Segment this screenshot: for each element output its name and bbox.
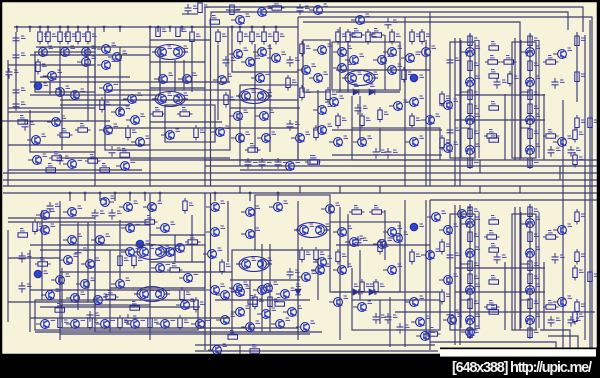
value label bbox=[474, 63, 479, 65]
junction node bbox=[103, 26, 106, 29]
resistor R48 bbox=[369, 33, 385, 37]
wire bbox=[351, 96, 353, 128]
value label bbox=[82, 34, 87, 36]
transistor Q60 bbox=[351, 16, 364, 25]
value label bbox=[158, 201, 163, 203]
value label bbox=[491, 134, 496, 136]
resistor R121 bbox=[489, 106, 499, 110]
value label bbox=[132, 130, 137, 132]
transistor Q51 bbox=[383, 66, 396, 75]
wire loop bbox=[352, 300, 440, 330]
wire bbox=[16, 27, 18, 32]
transistor Q81 bbox=[300, 226, 309, 235]
value label bbox=[244, 110, 249, 112]
resistor R90 bbox=[410, 249, 414, 265]
resistor R29 bbox=[274, 29, 278, 45]
value label bbox=[446, 96, 451, 98]
capacitor C13 bbox=[287, 56, 294, 67]
value label bbox=[332, 92, 337, 94]
value label bbox=[62, 129, 67, 131]
value label bbox=[491, 70, 496, 72]
capacitor C33 bbox=[287, 268, 294, 279]
value label bbox=[358, 72, 363, 74]
wire bbox=[40, 249, 130, 251]
wire bbox=[359, 96, 361, 140]
wire bbox=[191, 215, 193, 262]
wire bbox=[521, 263, 530, 265]
value label bbox=[436, 114, 441, 116]
wire bbox=[425, 200, 427, 340]
resistor R107 bbox=[528, 299, 532, 309]
transistor Q37 bbox=[255, 112, 268, 121]
wire bbox=[277, 193, 279, 201]
wire bbox=[455, 291, 545, 293]
capacitor C46 bbox=[447, 126, 454, 137]
junction node bbox=[84, 192, 87, 195]
resistor R73 bbox=[35, 262, 51, 266]
value label bbox=[489, 301, 494, 303]
wire bbox=[543, 94, 545, 160]
value label bbox=[534, 160, 539, 162]
wire loop bbox=[255, 195, 330, 250]
resistor R35 bbox=[326, 87, 330, 103]
value label bbox=[283, 160, 288, 162]
value label bbox=[310, 224, 315, 226]
capacitor C25 bbox=[568, 146, 575, 157]
wire bbox=[114, 193, 116, 201]
resistor R24 bbox=[216, 29, 220, 45]
value label bbox=[579, 132, 584, 134]
wire bbox=[562, 100, 564, 352]
value label bbox=[348, 226, 353, 228]
junction node bbox=[114, 192, 117, 195]
value label bbox=[393, 315, 398, 317]
bottom watermark bar (right part) bbox=[440, 357, 600, 378]
wire bbox=[174, 235, 176, 262]
value label bbox=[244, 34, 249, 36]
transistor Q105 bbox=[66, 320, 79, 329]
value label bbox=[236, 7, 241, 9]
value label bbox=[253, 160, 258, 162]
wire bbox=[8, 111, 60, 113]
resistor R87 bbox=[178, 315, 182, 331]
wire bbox=[205, 165, 597, 167]
wire bbox=[3, 172, 597, 174]
resistor R53 bbox=[528, 61, 532, 71]
value label bbox=[96, 258, 101, 260]
junction node bbox=[214, 192, 217, 195]
value label bbox=[455, 128, 460, 130]
wire bbox=[540, 330, 570, 350]
value label bbox=[536, 46, 541, 48]
wire bbox=[521, 51, 530, 53]
resistor R61 bbox=[468, 104, 472, 114]
wire loop bbox=[60, 225, 150, 305]
wire bbox=[103, 27, 105, 32]
transistor Q99 bbox=[231, 308, 244, 317]
capacitor C49 bbox=[355, 104, 362, 115]
resistor R45 bbox=[440, 91, 444, 107]
value label bbox=[370, 84, 375, 86]
value label bbox=[581, 38, 586, 40]
value label bbox=[44, 271, 49, 273]
value label bbox=[189, 203, 194, 205]
resistor R38 bbox=[366, 29, 370, 45]
wire bbox=[236, 263, 242, 265]
wire bbox=[266, 95, 272, 97]
wire bbox=[529, 33, 531, 101]
resistor R64 bbox=[528, 104, 532, 114]
resistor R124 bbox=[489, 248, 499, 252]
resistor R68 bbox=[575, 115, 579, 131]
value label bbox=[436, 249, 441, 251]
wire loop bbox=[352, 128, 440, 160]
resistor R75 bbox=[132, 253, 136, 269]
transistor Q69 bbox=[526, 146, 535, 155]
transistor Q63 bbox=[526, 48, 535, 57]
wire bbox=[230, 107, 300, 109]
value label bbox=[252, 258, 257, 260]
value label bbox=[191, 299, 196, 301]
value label bbox=[454, 274, 459, 276]
resistor R39 bbox=[390, 29, 394, 45]
wire loop bbox=[105, 90, 230, 150]
transistor Q173 bbox=[421, 251, 434, 260]
value label bbox=[506, 56, 511, 58]
wire bbox=[379, 300, 381, 324]
wire bbox=[300, 331, 306, 333]
transistor Q127 bbox=[526, 219, 535, 228]
transistor Q25 bbox=[174, 95, 183, 104]
capacitor C42 bbox=[75, 246, 82, 257]
transistor Q161 bbox=[206, 286, 219, 295]
transistor Q104 bbox=[36, 320, 49, 329]
wire bbox=[469, 271, 471, 339]
wire bbox=[275, 27, 277, 32]
wire bbox=[152, 98, 158, 100]
value label bbox=[274, 2, 279, 4]
resistor R42 bbox=[336, 113, 340, 129]
svg-text:[648x388] http://upic.me/: [648x388] http://upic.me/ bbox=[452, 360, 592, 376]
wire bbox=[384, 35, 386, 90]
value label bbox=[171, 222, 176, 224]
junction node bbox=[99, 192, 102, 195]
value label bbox=[380, 284, 385, 286]
value label bbox=[252, 345, 257, 347]
value label bbox=[95, 313, 100, 315]
transistor Q150 bbox=[176, 301, 189, 310]
transistor Q24 bbox=[158, 95, 167, 104]
transistor Q116 bbox=[345, 238, 358, 247]
value label bbox=[58, 70, 63, 72]
value label bbox=[155, 108, 160, 110]
resistor R125 bbox=[489, 280, 499, 284]
value label bbox=[455, 310, 460, 312]
transistor Q100 bbox=[257, 310, 270, 319]
value label bbox=[168, 46, 173, 48]
wire bbox=[231, 27, 233, 32]
transistor Q83 bbox=[63, 236, 76, 245]
resistor R82 bbox=[314, 247, 318, 263]
value label bbox=[420, 136, 425, 138]
wire bbox=[60, 327, 298, 329]
value label bbox=[226, 264, 231, 266]
value label bbox=[268, 90, 273, 92]
wire bbox=[30, 244, 110, 246]
value label bbox=[182, 29, 187, 31]
value label bbox=[455, 253, 460, 255]
value label bbox=[468, 208, 473, 210]
resistor R131 bbox=[33, 219, 37, 235]
transistor Q163 bbox=[253, 286, 266, 295]
resistor R46 bbox=[440, 135, 444, 151]
wire loop bbox=[332, 42, 400, 90]
resistor R129 bbox=[573, 265, 577, 281]
transistor Q87 bbox=[51, 276, 64, 285]
resistor R130 bbox=[573, 309, 577, 325]
wire bbox=[164, 293, 170, 295]
value label bbox=[476, 217, 481, 219]
value label bbox=[306, 46, 311, 48]
wire bbox=[40, 76, 130, 78]
differential pair outline bbox=[345, 71, 375, 86]
transistor Q136 bbox=[411, 318, 424, 327]
value label bbox=[476, 144, 481, 146]
capacitor C48 bbox=[447, 308, 454, 319]
value label bbox=[381, 315, 386, 317]
wire bbox=[181, 27, 183, 32]
resistor R51 bbox=[468, 90, 472, 100]
transistor Q84 bbox=[203, 250, 216, 259]
wire bbox=[77, 27, 79, 32]
transistor Q107 bbox=[126, 320, 139, 329]
capacitor C30 (polarized) bbox=[34, 270, 42, 278]
resistor R138 bbox=[120, 153, 130, 157]
transistor Q30 bbox=[229, 50, 242, 59]
wire bbox=[8, 107, 95, 109]
wire bbox=[87, 47, 89, 121]
wire bbox=[478, 212, 480, 328]
differential pair outline bbox=[297, 223, 327, 238]
wire bbox=[129, 193, 131, 201]
resistor R133 bbox=[55, 308, 65, 312]
wire loop bbox=[512, 42, 536, 158]
resistor R28 bbox=[262, 29, 266, 45]
value label bbox=[166, 262, 171, 264]
value label bbox=[147, 216, 152, 218]
wire bbox=[519, 38, 521, 160]
junction node bbox=[251, 26, 254, 29]
resistor R117 bbox=[247, 349, 263, 353]
wire bbox=[191, 42, 193, 92]
value label bbox=[560, 80, 565, 82]
transistor Q38 bbox=[231, 134, 244, 143]
value label bbox=[548, 130, 553, 132]
resistor R118 bbox=[425, 332, 441, 336]
wire bbox=[538, 40, 540, 158]
capacitor C22 bbox=[494, 78, 501, 89]
value label bbox=[114, 124, 119, 126]
resistor R31 bbox=[300, 41, 304, 57]
capacitor C17 bbox=[275, 158, 282, 169]
resistor R65 bbox=[528, 129, 532, 139]
wire bbox=[454, 205, 456, 345]
value label bbox=[354, 84, 359, 86]
wire bbox=[29, 27, 31, 32]
wire bbox=[67, 27, 69, 32]
transistor Q32 bbox=[241, 58, 254, 67]
transistor Q2 bbox=[309, 6, 322, 15]
value label bbox=[51, 209, 56, 211]
value label bbox=[280, 34, 285, 36]
wire bbox=[430, 342, 556, 350]
wire loop bbox=[330, 222, 400, 292]
value label bbox=[568, 48, 573, 50]
wire bbox=[49, 80, 51, 95]
transistor Q130 bbox=[466, 316, 475, 325]
transistor Q164 bbox=[276, 290, 289, 299]
differential pair outline bbox=[239, 89, 269, 104]
value label bbox=[579, 314, 584, 316]
value label bbox=[342, 118, 347, 120]
wire loop bbox=[450, 42, 475, 158]
wire bbox=[30, 110, 95, 152]
transistor Q42 bbox=[291, 134, 304, 143]
wire bbox=[351, 268, 353, 300]
value label bbox=[184, 93, 189, 95]
transistor Q168 bbox=[313, 126, 326, 135]
value label bbox=[176, 129, 181, 131]
resistor R21 bbox=[150, 112, 166, 116]
value label bbox=[489, 231, 494, 233]
junction node bbox=[59, 26, 62, 29]
value label bbox=[366, 284, 371, 286]
resistor R109 bbox=[575, 209, 579, 225]
value label bbox=[204, 5, 209, 7]
transistor Q26 bbox=[123, 95, 136, 104]
transistor Q140 bbox=[36, 211, 49, 220]
resistor R94 bbox=[440, 289, 444, 305]
wire bbox=[576, 32, 578, 102]
value label bbox=[431, 330, 436, 332]
wire bbox=[87, 27, 89, 32]
wire bbox=[543, 262, 545, 330]
value label bbox=[548, 231, 553, 233]
value label bbox=[474, 131, 479, 133]
value label bbox=[568, 224, 573, 226]
value label bbox=[42, 134, 47, 136]
resistor R37 bbox=[346, 29, 350, 45]
junction node bbox=[159, 192, 162, 195]
value label bbox=[368, 136, 373, 138]
value label bbox=[90, 155, 95, 157]
value label bbox=[256, 206, 261, 208]
junction node bbox=[29, 26, 32, 29]
value label bbox=[168, 93, 173, 95]
wire bbox=[514, 38, 516, 160]
resistor R115 bbox=[484, 305, 500, 309]
resistor R79 bbox=[253, 294, 257, 310]
value label bbox=[21, 102, 26, 104]
value label bbox=[405, 325, 410, 327]
transistor Q20 bbox=[158, 48, 167, 57]
capacitor C36 (polarized) bbox=[410, 223, 418, 231]
value label bbox=[256, 321, 261, 323]
value label bbox=[230, 331, 235, 333]
value label bbox=[226, 126, 231, 128]
value label bbox=[534, 209, 539, 211]
capacitor C32 bbox=[19, 282, 26, 293]
transistor Q121 bbox=[405, 298, 418, 307]
transistor Q5 bbox=[77, 48, 90, 57]
value label bbox=[295, 270, 300, 272]
transistor Q171 bbox=[313, 258, 326, 267]
wire bbox=[239, 186, 241, 193]
value label bbox=[328, 256, 333, 258]
capacitor C45 bbox=[447, 56, 454, 67]
wire bbox=[384, 210, 386, 260]
wire bbox=[8, 257, 60, 259]
capacitor C15 bbox=[245, 158, 252, 169]
value label bbox=[576, 148, 581, 150]
wire bbox=[3, 179, 597, 181]
value label bbox=[360, 236, 365, 238]
value label bbox=[534, 263, 539, 265]
value label bbox=[83, 248, 88, 250]
transistor Q128 bbox=[526, 249, 535, 258]
capacitor C38 bbox=[552, 253, 559, 264]
transistor Q126 bbox=[466, 249, 475, 258]
transistor Q77 bbox=[269, 203, 282, 212]
value label bbox=[366, 118, 371, 120]
wire bbox=[36, 46, 100, 48]
wire bbox=[461, 51, 470, 53]
wire bbox=[195, 350, 438, 352]
transistor Q33 bbox=[267, 54, 280, 63]
wire bbox=[379, 186, 381, 193]
transistor Q49 bbox=[373, 56, 386, 65]
value label bbox=[354, 29, 359, 31]
resistor R1 bbox=[198, 3, 202, 13]
wire bbox=[460, 40, 462, 158]
transistor Q59 bbox=[353, 138, 366, 147]
value label bbox=[277, 298, 282, 300]
transistor Q95 bbox=[242, 260, 251, 269]
transistor Q55 bbox=[325, 98, 338, 107]
value label bbox=[94, 320, 99, 322]
wire bbox=[266, 263, 272, 265]
value label bbox=[348, 46, 353, 48]
value label bbox=[581, 304, 586, 306]
capacitor C20 bbox=[385, 148, 392, 159]
wire bbox=[60, 104, 130, 106]
transistor Q133 bbox=[553, 226, 566, 235]
transistor Q103 bbox=[311, 266, 324, 275]
value label bbox=[446, 294, 451, 296]
wire bbox=[548, 336, 578, 350]
resistor R108 bbox=[528, 328, 532, 338]
transistor Q122 bbox=[353, 303, 366, 312]
wire bbox=[8, 144, 150, 146]
value label bbox=[104, 294, 109, 296]
capacitor C7 bbox=[13, 100, 20, 111]
capacitor C9 bbox=[22, 120, 29, 131]
wire bbox=[519, 207, 521, 330]
wire bbox=[159, 193, 161, 201]
wire bbox=[461, 223, 470, 225]
value label bbox=[296, 160, 301, 162]
transistor Q135 bbox=[208, 346, 221, 355]
